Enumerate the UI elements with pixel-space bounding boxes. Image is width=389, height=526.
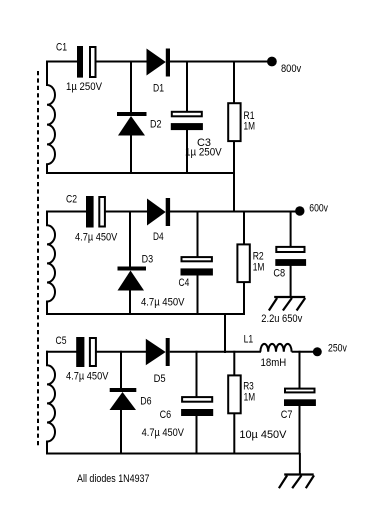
resistor R1 (228, 103, 240, 141)
resistor R2 (237, 244, 249, 282)
svg-text:2.2u 650v: 2.2u 650v (261, 313, 302, 325)
svg-text:D1: D1 (153, 83, 164, 95)
svg-text:1µ 250V: 1µ 250V (185, 146, 222, 158)
wire: section3 bottom rail (46, 453, 301, 455)
wire: section2 bottom rail (46, 313, 245, 315)
diode D1 (147, 49, 171, 77)
svg-text:L1: L1 (244, 334, 254, 346)
node 600v (295, 206, 304, 215)
diode D3 (118, 267, 147, 291)
ground (C8) (269, 297, 305, 311)
wire: section1 top rail to C1 (46, 61, 78, 63)
wire: D5 to L1 (170, 351, 261, 353)
wire: C8 branch from 600v rail (290, 211, 292, 248)
svg-text:C6: C6 (160, 409, 172, 421)
svg-text:1M: 1M (244, 392, 256, 404)
node 250v (313, 347, 322, 356)
svg-text:4.7µ 450V: 4.7µ 450V (66, 371, 109, 383)
wire: C7 branch from 250v rail (299, 351, 301, 389)
capacitor C7 (284, 389, 316, 406)
svg-text:C8: C8 (273, 268, 285, 280)
svg-text:C5: C5 (56, 335, 67, 347)
winding (section 3) (47, 351, 55, 454)
capacitor C6 (181, 397, 213, 416)
node 800v (267, 57, 277, 67)
wire: R1 bottom, drop to 600v rail (233, 142, 235, 213)
wire: R2 to bottom rail (243, 283, 245, 315)
diode D4 (147, 198, 170, 226)
wire: C4 branch from 600v rail (197, 211, 199, 258)
wire: D6 to bottom rail (120, 410, 122, 455)
wire: rail3 to output ground (299, 453, 301, 475)
wire: section1 bottom rail (46, 172, 235, 174)
wire: D2 branch from top rail (130, 61, 132, 114)
svg-text:D4: D4 (153, 231, 164, 243)
svg-text:4.7µ 450V: 4.7µ 450V (75, 232, 118, 244)
wire: C8 to ground (290, 265, 292, 297)
capacitor C4 (181, 257, 213, 275)
svg-text:D5: D5 (154, 373, 166, 385)
wire: C3 to bottom rail (186, 130, 188, 175)
transformer core dotted line (37, 71, 39, 446)
diode D6 (110, 388, 137, 410)
wire: C1 to D1 (96, 61, 147, 63)
svg-text:D2: D2 (150, 119, 162, 131)
wire: D2 to bottom rail (130, 135, 132, 174)
wire: rail2 drop to section3 output (224, 314, 226, 354)
svg-text:800v: 800v (281, 63, 302, 75)
svg-text:C4: C4 (179, 277, 190, 289)
ground (output) (279, 475, 314, 489)
wire: D4 to 600v node (170, 211, 296, 213)
wire: section2 top rail to C2 (46, 211, 87, 213)
wire: C4 to bottom rail (197, 275, 199, 315)
wire: C3 branch from top rail (186, 61, 188, 112)
wire: D3 branch from top rail (129, 211, 131, 268)
capacitor C3 (171, 112, 203, 130)
resistor R3 (228, 375, 241, 413)
diode D5 (146, 338, 170, 366)
svg-text:10µ 450V: 10µ 450V (239, 429, 287, 441)
inductor L1 (260, 344, 291, 352)
svg-text:600v: 600v (309, 203, 328, 215)
svg-text:1µ 250V: 1µ 250V (66, 81, 103, 93)
svg-text:D3: D3 (142, 254, 154, 266)
winding (section 1) (47, 61, 55, 175)
svg-text:1M: 1M (253, 262, 265, 274)
wire: D3 to bottom rail (129, 290, 131, 315)
svg-text:C7: C7 (281, 409, 293, 421)
wire: R3 to bottom rail (233, 414, 235, 455)
winding (section 2) (47, 211, 55, 315)
wire: section3 top rail to C5 (46, 351, 77, 353)
wire: R1 branch from top rail (233, 61, 235, 104)
svg-text:C1: C1 (56, 42, 67, 54)
wire: C2 to D4 (105, 211, 148, 213)
svg-text:18mH: 18mH (261, 357, 287, 369)
svg-text:All diodes 1N4937: All diodes 1N4937 (77, 473, 150, 485)
svg-text:1M: 1M (244, 120, 256, 132)
wire: D1 to 800v node (170, 61, 268, 63)
wire: R3 branch from top rail (233, 351, 235, 376)
wire: R2 branch from 600v rail (243, 211, 245, 245)
capacitor C1 (77, 46, 96, 78)
capacitor C8 (275, 247, 306, 266)
wire: C6 branch from top rail (196, 351, 198, 397)
wire: C7 to bottom rail (299, 406, 301, 454)
capacitor C5 (76, 337, 96, 367)
svg-text:C2: C2 (66, 194, 77, 206)
wire: C6 to bottom rail (196, 415, 198, 454)
wire: L1 to 250v node (292, 351, 313, 353)
diode D2 (117, 112, 147, 136)
svg-text:D6: D6 (140, 396, 151, 408)
capacitor C2 (86, 196, 105, 228)
svg-text:4.7µ 450V: 4.7µ 450V (141, 297, 185, 309)
svg-text:4.7µ 450V: 4.7µ 450V (142, 427, 185, 439)
wire: D6 branch from top rail (120, 351, 122, 389)
svg-text:250v: 250v (328, 343, 347, 355)
wire: C5 to D5 (96, 351, 147, 353)
